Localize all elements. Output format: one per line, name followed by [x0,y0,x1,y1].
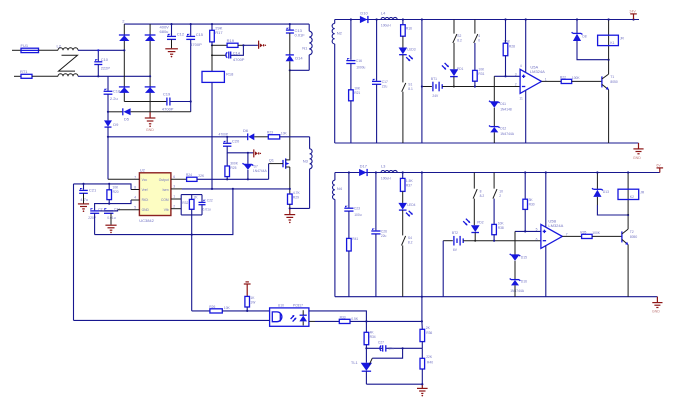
svg-text:D11: D11 [500,102,506,106]
diode D6 clamp [243,128,254,140]
wire PD1 to minus row [453,77,455,87]
wire sec1 bottom rail [335,142,639,144]
resistor R20 10K [107,184,119,200]
svg-text:11: 11 [519,96,523,100]
wire RT1 to choke [32,75,58,77]
svg-text:R18: R18 [226,71,234,76]
svg-text:22K: 22K [198,174,205,178]
switch S3 [474,20,481,43]
svg-text:R32: R32 [182,201,188,205]
wire R21 to rail [350,101,352,143]
junction long column top [421,171,423,173]
svg-text:C26: C26 [381,229,387,233]
svg-text:LED3: LED3 [407,47,415,51]
resistor R37 [400,173,413,192]
wire zener stack top [493,76,495,102]
svg-text:Q1: Q1 [269,158,275,163]
resistor R31 10K [473,67,485,81]
junction R27-optorow [246,310,248,312]
wire drain column [289,70,291,159]
wire pin8 Vref stub [131,189,139,191]
junction C20 rail [226,136,228,138]
svg-text:2: 2 [173,204,175,208]
wire T1 collector riser [608,60,610,74]
wire x108 to rail137 and down to IC Vcc [107,127,109,179]
wire R19 to test point [238,44,243,46]
junction R30 top [524,171,526,173]
diode D14 [286,55,304,61]
wire C26 to rail [375,234,377,297]
svg-text:R26: R26 [209,305,215,309]
TL431 TL1 [351,348,372,384]
wire Vref-net left riser [73,184,75,321]
svg-text:Isen: Isen [162,188,168,192]
wire D6 to R23 [254,136,268,138]
resistor R30 [523,173,535,210]
junction choke-C10 top [97,49,99,51]
svg-text:D15: D15 [521,255,527,259]
power +6V [656,163,663,172]
svg-text:7: 7 [134,175,136,179]
svg-text:R36: R36 [426,331,432,335]
svg-text:100K: 100K [572,76,581,80]
ground GND1 bridge negative [145,102,156,132]
svg-text:R16: R16 [406,26,412,30]
capacitor C21 [79,184,97,202]
svg-text:D7: D7 [254,164,258,168]
svg-text:TL1: TL1 [351,360,359,365]
wire opto emitter out [309,320,315,322]
photodiode PD2 [463,219,484,233]
wire R25 bottom to gate row [226,177,228,180]
svg-text:Vfb: Vfb [164,208,169,212]
wire S1 to rail [402,92,404,143]
svg-text:N3: N3 [303,158,309,163]
svg-text:FU1: FU1 [21,43,29,48]
wire bridge negative row [124,101,166,103]
junction divider top [421,320,423,322]
svg-text:220P: 220P [88,216,97,220]
svg-text:BT2: BT2 [452,231,458,235]
svg-text:0.01F: 0.01F [295,32,306,37]
wire D8 to relay bottom [577,41,609,60]
wire pin4 RtCt stub [131,199,139,201]
svg-text:D5: D5 [124,116,130,121]
junction R19 node [211,44,213,46]
common-mode choke L2 top winding [57,44,79,51]
wire R26 to opto [222,310,269,312]
junction battery column top [421,18,423,20]
junction x232 top [232,188,234,190]
wire R28 to plus row [505,56,507,77]
capacitor C10 [94,50,110,76]
svg-text:1000u: 1000u [356,65,365,69]
resistor R34 4.7K [364,321,376,344]
wire x212 down segment [211,45,213,71]
wire Isense row [182,188,290,190]
wire BT2 left riser to rail [442,241,444,297]
earth TP2 dark red [254,149,261,157]
svg-text:8050: 8050 [630,235,638,239]
svg-text:6: 6 [173,175,175,179]
relay K2 [618,173,645,216]
wire feedback bottom row from left riser [74,319,270,321]
zener D8 flyback [572,20,587,42]
svg-text:R40: R40 [427,361,433,365]
wire pin5 GND stub [118,209,140,211]
svg-text:C14: C14 [233,50,241,55]
junction R28 top [504,18,506,20]
svg-text:10: 10 [499,189,503,193]
resistor R41 [347,211,359,251]
svg-text:2: 2 [515,83,517,87]
wire opamp1 output [542,80,562,82]
svg-text:1.5K: 1.5K [406,179,414,183]
wire opamp2 vcc riser [545,173,547,228]
junction C15 top [190,23,192,25]
wire Vref step and bus [74,184,132,190]
svg-text:T1: T1 [610,75,614,79]
ground GND4 under C21 [78,193,89,212]
svg-text:680u: 680u [160,29,169,34]
wire D11 to D12 [493,108,495,127]
wire opamp2 gnd riser [545,246,547,297]
resistor R26 10K [209,305,230,313]
wire R40 to gnd row [421,369,423,384]
transformer secondary N4 [332,173,342,297]
resistor R23 10K [267,131,288,139]
svg-text:GND: GND [633,156,641,160]
svg-text:PC817: PC817 [293,303,303,307]
svg-text:PD2: PD2 [477,220,484,224]
wire gate riser to drive row [268,164,270,180]
svg-text:C22: C22 [207,199,213,203]
svg-text:C16: C16 [356,59,362,63]
resistor R19 [227,38,238,48]
transistor T1 8050 [602,74,618,90]
capacitor C27 [378,341,394,352]
LED3 charge indicator [399,36,416,61]
resistor R32 [182,195,198,215]
wire R31 to minus row [474,81,476,86]
svg-text:LM324A: LM324A [530,69,545,74]
wire choke to bridge bottom [78,75,150,77]
ground GND8 sec2 [652,297,663,314]
svg-text:N2: N2 [337,30,343,35]
svg-text:100uH: 100uH [381,176,391,180]
transformer primary N1 [302,24,312,70]
wire S6 to R38 [493,199,495,225]
svg-text:D16: D16 [521,279,527,283]
junction K2 top [627,171,629,173]
svg-text:8050: 8050 [610,80,618,84]
wire gate lead [269,163,283,165]
capacitor C12 bulk 680u [160,24,185,39]
wire opamp1 gnd riser [525,91,527,143]
wire plus row sec1 [494,75,520,77]
opamp U5B [536,218,568,248]
svg-text:4: 4 [520,64,522,68]
wire C19 to corner [170,101,191,103]
common-mode choke L2 bottom winding [58,74,78,77]
wire primary snubber rail y137 [108,136,248,138]
svg-text:C15: C15 [196,32,204,37]
capacitor C16 [346,20,365,70]
svg-text:4700P: 4700P [162,107,174,112]
svg-text:D9: D9 [113,122,119,127]
wire R22 to T1 base [572,80,602,82]
wire R35 to T2 base [592,235,622,237]
svg-text:Output: Output [159,178,169,182]
junction C23 top [348,171,350,173]
svg-text:8: 8 [480,189,482,193]
junction opamp2 vcc top [545,171,547,173]
svg-text:Vcc: Vcc [142,178,148,182]
svg-text:K1: K1 [610,41,614,45]
junction D8 top [576,18,578,20]
svg-text:4.7K: 4.7K [293,191,301,195]
wire C17 to rail [376,84,378,143]
resistor R29 sense [288,191,301,204]
fuse FU1 [21,43,39,53]
svg-text:S1: S1 [408,82,412,86]
junction battery column mid [421,85,423,87]
wire TL431 anode row [366,383,422,385]
svg-text:C20: C20 [232,138,240,143]
junction C10 bottom [97,75,99,77]
svg-text:1: 1 [545,77,547,81]
photodiode PD1 [442,63,464,77]
wire D5 row left [108,111,123,113]
svg-text:RT1: RT1 [20,69,28,74]
svg-text:K2: K2 [630,195,634,199]
junction C14 row [211,54,213,56]
svg-text:24V: 24V [432,94,439,98]
wire S3 to R31 [474,43,476,71]
junction rail137 left corner [107,136,109,138]
junction drive-R25 [226,178,228,180]
svg-text:S4: S4 [408,236,412,240]
svg-text:GND: GND [146,128,154,132]
junction relay2 bottom node [627,214,629,216]
capacitor C22 [199,195,213,215]
svg-text:D14: D14 [295,55,303,60]
junction C19 row x190 [190,100,192,102]
svg-text:100K: 100K [592,231,601,235]
junction R38 row [493,240,495,242]
svg-text:D8: D8 [582,34,586,38]
wire S5 to PD2 [473,199,475,226]
junction R37 top [402,171,404,173]
svg-text:N1: N1 [302,45,308,50]
svg-text:D12: D12 [500,126,506,130]
zener D11 [489,101,512,112]
svg-text:1N4148: 1N4148 [500,107,512,111]
wire R17 to R19 node [211,42,213,45]
wire T1 emitter riser [608,90,610,143]
relay K1 [598,20,625,60]
svg-text:GND: GND [652,309,660,313]
svg-text:C17: C17 [382,80,388,84]
resistor R22 100K [560,75,581,83]
wire opamp2 output [562,235,581,237]
wire pin1 COMP stub [171,198,181,200]
wire riser x190 C15-bottom to D5 row [190,40,192,112]
svg-text:R25: R25 [230,166,236,170]
wire pin5 to cap tops [99,210,117,211]
svg-text:RtCt: RtCt [142,198,149,202]
svg-text:R35: R35 [580,230,586,234]
diode D3 bridge lower-left [119,87,130,93]
capacitor C18 [104,88,121,101]
svg-text:R22: R22 [560,75,566,79]
svg-text:JR: JR [640,190,645,194]
svg-text:10K: 10K [354,86,361,90]
zener D16 [510,279,527,293]
svg-text:1N4744A: 1N4744A [500,132,515,136]
wire DC top rail [124,23,309,25]
mosfet Q1 [269,158,290,169]
wire fuse to choke [39,49,59,51]
svg-text:N4: N4 [337,186,343,191]
svg-text:10K: 10K [478,67,485,71]
inductor L4 [381,10,397,27]
svg-text:R21: R21 [354,91,360,95]
diode D5 [123,108,131,121]
junction C13 top [289,23,291,25]
junction relay bottom node [608,59,610,61]
switch S1 [402,55,413,92]
thermistor RT1 [20,69,32,78]
svg-text:300K: 300K [230,161,239,165]
battery BT1 24V [422,77,442,98]
ground GND6 [417,384,428,396]
svg-text:10n: 10n [388,346,394,350]
wire choke to bridge top [78,49,124,51]
earth TP1 dark red [259,41,266,49]
svg-text:5: 5 [536,227,538,231]
junction D13 top [596,171,598,173]
svg-text:1: 1 [173,195,175,199]
capacitor C14 [226,50,245,62]
wire S2 to PD1 [453,43,455,69]
svg-text:R30: R30 [529,202,535,206]
svg-text:UC3842: UC3842 [139,218,154,223]
svg-text:6: 6 [536,237,538,241]
junction PD2 row [474,240,476,242]
junction bridge right / AC bottom [149,75,151,77]
svg-text:R28: R28 [509,44,515,48]
resistor R18 box [202,71,234,82]
wire D16 to rail [514,285,516,296]
svg-text:4700P: 4700P [233,57,245,62]
svg-text:C12: C12 [177,32,185,37]
svg-text:22K: 22K [426,355,433,359]
zener D13 flyback [592,173,609,197]
wire opto anode row [192,310,210,312]
wire zener stack top sec2 [514,231,516,255]
junction R20 bottom [108,200,110,204]
wire C14 up to R19 out [231,45,244,55]
power +24V [629,9,636,20]
junction bridge left / AC top [123,49,125,51]
wire pin2 Vfb stub [171,208,181,210]
junction C16 top [350,18,352,20]
IC U2 pin names [142,178,169,212]
wire pin7 Vcc stub [108,178,139,180]
wire N3 bottom to sense node [289,207,310,209]
wire sec2 top rail [335,172,660,174]
diode D1 bridge upper-left [119,35,130,41]
junction bus-x191 [191,234,193,236]
junction C14 join [242,44,244,46]
svg-text:R20: R20 [113,190,119,194]
wire C18 to D5 row [107,94,109,112]
svg-text:8.2: 8.2 [457,38,462,42]
junction C12 top [170,23,172,25]
wire comp loop [180,195,182,215]
capacitor C23 [344,173,361,217]
svg-text:4: 4 [134,195,136,199]
wire PD2 to minus row [474,233,476,241]
svg-text:0.01u: 0.01u [203,207,211,211]
junction ref-comp row [402,347,404,349]
svg-text:R29: R29 [293,196,299,200]
switch S5 [473,173,484,199]
svg-text:1W: 1W [250,301,256,305]
junction C17 top [376,18,378,20]
wire x191 riser to opto row [191,215,193,311]
wire primary bottom to drain column [290,69,309,71]
svg-text:24V: 24V [629,9,636,13]
wire pin6 drive row: stub [171,178,187,180]
diode D17 rectifier sec2 [359,163,368,176]
svg-text:8.2: 8.2 [480,194,485,198]
svg-text:LED4: LED4 [407,203,415,207]
svg-text:1N4744A: 1N4744A [510,289,525,293]
wire AC line N input [14,75,21,77]
wire R30 to plus row [524,209,526,231]
wire comp row [366,347,382,349]
ground GND5 under C24 [105,213,116,233]
capacitor C17 [372,20,388,89]
transformer aux N3 [303,137,312,209]
wire RtCt row [95,200,131,210]
svg-text:S2: S2 [457,34,461,38]
diode D2 bridge upper-right [145,35,156,41]
svg-text:8.1: 8.1 [408,87,413,91]
svg-text:4: 4 [478,34,480,38]
wire plus row sec2 [515,230,541,232]
resistor R24 22K [186,173,205,181]
ground GND3 under R29 [284,204,295,223]
optocoupler U10 PC817 box [270,303,309,326]
wire R23 to N3 top corner [280,136,310,138]
svg-text:C27: C27 [378,341,384,345]
switch S2 [453,20,462,43]
junction opamp1 vcc top [525,18,527,20]
svg-text:100u: 100u [354,213,362,217]
junction sense node [289,188,291,190]
wire R33 to divider column [350,320,422,322]
svg-text:100uH: 100uH [381,23,391,27]
wire D12 to rail [493,132,495,143]
svg-text:LM324A: LM324A [548,223,563,228]
wire C14 row [212,54,227,56]
svg-text:5: 5 [134,205,136,209]
svg-text:10K: 10K [224,306,231,310]
junction x108 D5 row [107,111,109,113]
